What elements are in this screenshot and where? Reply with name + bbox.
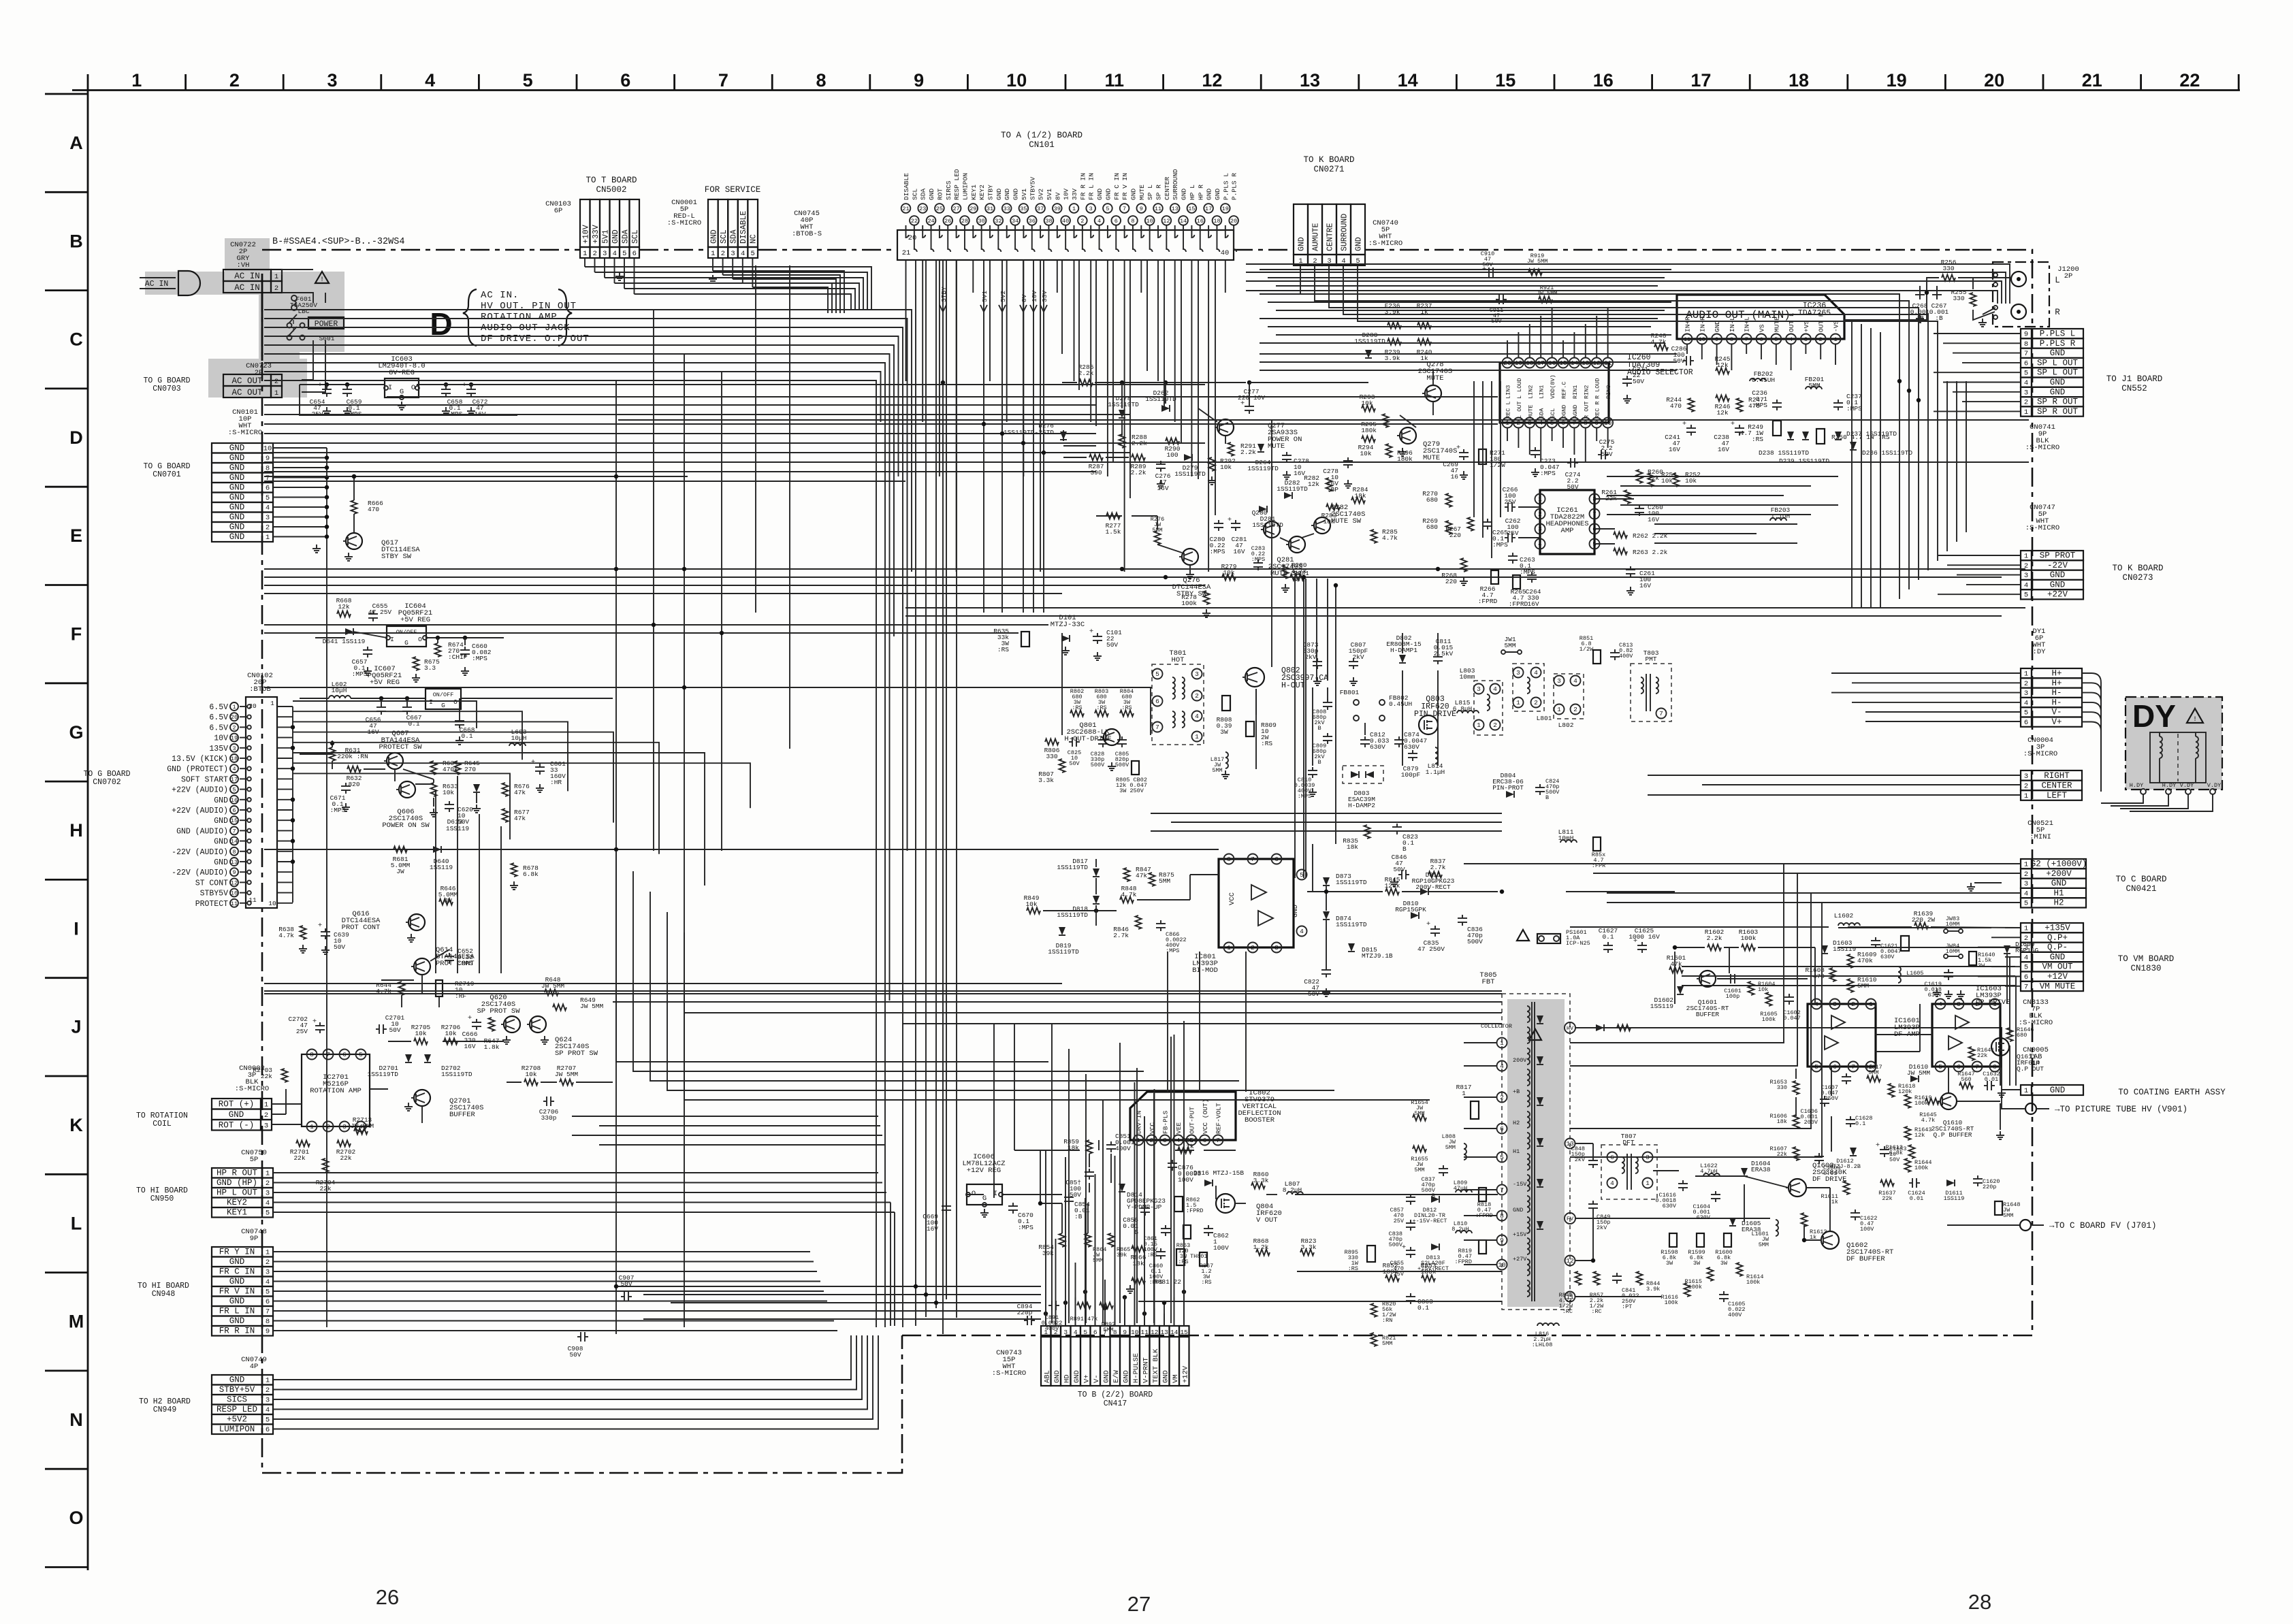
svg-text:20: 20 xyxy=(231,714,238,721)
diode D804 xyxy=(1506,791,1514,798)
wire xyxy=(1570,926,1829,928)
wire xyxy=(2005,927,2021,928)
resistor R1655 xyxy=(1413,1146,1426,1152)
svg-text:470k: 470k xyxy=(1857,957,1873,964)
resistor R244 xyxy=(1688,398,1695,412)
wire xyxy=(1805,344,1806,354)
capacitor C1628 xyxy=(1850,1116,1851,1120)
svg-text:50V: 50V xyxy=(1567,483,1578,491)
resistor R245 xyxy=(1716,368,1729,374)
svg-text:100k: 100k xyxy=(1914,1100,1928,1107)
resistor R1606 xyxy=(1793,1115,1799,1128)
wire xyxy=(1908,381,1910,589)
svg-text:SP L OUT: SP L OUT xyxy=(2037,358,2079,368)
transistor Q1603 DF DRIVE xyxy=(1789,1179,1806,1197)
svg-text:2: 2 xyxy=(326,1123,330,1131)
resistor R1603 xyxy=(1742,945,1755,951)
svg-text:CN0702: CN0702 xyxy=(93,778,121,787)
svg-text:11: 11 xyxy=(1105,70,1125,91)
wire xyxy=(1464,1264,1496,1265)
svg-text:37: 37 xyxy=(1037,206,1044,212)
svg-text:HP L: HP L xyxy=(1189,184,1196,200)
svg-text:12k: 12k xyxy=(1308,481,1319,488)
resistor R1605 xyxy=(1766,992,1772,1006)
resistor R2705 xyxy=(414,1039,428,1045)
resistor R845 xyxy=(1385,889,1399,895)
diode D873 xyxy=(1323,877,1330,886)
wire xyxy=(1570,864,2021,1043)
wire xyxy=(1876,1051,1920,1052)
wire xyxy=(1085,1074,1087,1323)
svg-text:10k: 10k xyxy=(445,1030,456,1037)
svg-text:6: 6 xyxy=(266,1426,270,1434)
svg-text:GND: GND xyxy=(229,444,245,453)
wire xyxy=(264,990,1502,992)
wire xyxy=(1138,1301,1502,1302)
resistor R250 xyxy=(1816,429,1825,444)
wire xyxy=(1305,579,1306,878)
wire CN0743 drops xyxy=(1045,1314,1046,1326)
svg-text:5P: 5P xyxy=(250,1156,259,1164)
diode D811 xyxy=(1420,888,1428,895)
svg-text:33V: 33V xyxy=(1041,291,1048,302)
capacitor C2701 xyxy=(376,1028,379,1030)
svg-text:2kV: 2kV xyxy=(1597,1224,1607,1231)
svg-text:GND: GND xyxy=(2050,570,2066,580)
wire xyxy=(1191,260,1192,476)
resistor R847 xyxy=(1124,868,1130,881)
svg-text:18k: 18k xyxy=(1777,1118,1787,1125)
svg-text:5V1: 5V1 xyxy=(1046,189,1053,200)
svg-text:5MM: 5MM xyxy=(1759,1241,1769,1248)
capacitor C807 xyxy=(1353,658,1354,662)
svg-text:500V: 500V xyxy=(1467,938,1483,945)
svg-text:10k: 10k xyxy=(1661,477,1673,485)
wire xyxy=(1804,1239,1822,1241)
svg-text:1SS119TD: 1SS119TD xyxy=(1336,921,1367,928)
wire xyxy=(1831,672,2021,674)
svg-text:CN0703: CN0703 xyxy=(153,385,181,393)
wire xyxy=(1402,670,1403,766)
svg-text:10: 10 xyxy=(1006,70,1027,91)
svg-text:CN0271: CN0271 xyxy=(1313,165,1344,174)
svg-text:FR C IN: FR C IN xyxy=(219,1267,255,1277)
svg-text:+: + xyxy=(462,381,466,389)
svg-text:1: 1 xyxy=(264,1101,268,1109)
svg-text:VCC (OUT): VCC (OUT) xyxy=(1202,1099,1209,1134)
svg-text:50V: 50V xyxy=(389,1026,400,1034)
wire xyxy=(1518,332,1519,357)
svg-text:3: 3 xyxy=(2024,389,2028,397)
svg-text:33: 33 xyxy=(1004,206,1010,212)
resistor R1619 xyxy=(1905,1094,1911,1108)
svg-text:28: 28 xyxy=(961,218,968,225)
wire xyxy=(1170,1037,1172,1323)
wire xyxy=(273,1172,878,1173)
wire xyxy=(1260,269,1671,270)
resistor R1639 xyxy=(1914,923,1928,929)
svg-text:ON/OFF: ON/OFF xyxy=(396,629,417,636)
resistor R1604 xyxy=(1748,981,1754,995)
wire vert-out nets xyxy=(1098,1140,1100,1150)
svg-text:4: 4 xyxy=(1300,928,1304,935)
svg-text:5MM: 5MM xyxy=(1159,877,1170,885)
svg-text:6: 6 xyxy=(1500,1125,1504,1133)
capacitor C237 xyxy=(1838,400,1839,403)
svg-text:4: 4 xyxy=(1534,669,1538,677)
wire xyxy=(1682,975,2015,977)
svg-text:6: 6 xyxy=(2024,973,2028,981)
svg-text:1SS119TD: 1SS119TD xyxy=(1354,338,1385,345)
capacitor C1622 xyxy=(1855,1209,1856,1213)
svg-text:K: K xyxy=(69,1115,83,1135)
svg-text:+5V2: +5V2 xyxy=(227,1415,247,1425)
svg-text:100: 100 xyxy=(1166,451,1178,459)
svg-text:CN1830: CN1830 xyxy=(2130,964,2161,973)
svg-text:12: 12 xyxy=(1592,359,1601,367)
svg-text:1SS119TD: 1SS119TD xyxy=(1277,485,1308,493)
wire xyxy=(1570,903,2021,1157)
wire xyxy=(1654,523,1797,525)
svg-text:29: 29 xyxy=(969,206,976,212)
wire xyxy=(1540,316,1541,357)
svg-text:ROT (+): ROT (+) xyxy=(219,1100,255,1109)
wire xyxy=(1844,278,1939,320)
resistor R1601 xyxy=(1669,967,1683,973)
wire xyxy=(1852,702,2021,703)
resistor R1648 xyxy=(1995,1201,2002,1215)
svg-text:+: + xyxy=(318,922,322,930)
svg-text:+12V: +12V xyxy=(1182,1365,1190,1383)
svg-text:8: 8 xyxy=(266,1318,270,1326)
svg-text:3: 3 xyxy=(1833,1001,1837,1008)
svg-text:H1: H1 xyxy=(2053,888,2064,898)
IC802 VERTICAL DEFLECTION BOOSTER xyxy=(1130,1092,1236,1140)
inductor L810 xyxy=(1456,1231,1472,1233)
svg-text:ROT: ROT xyxy=(936,189,944,200)
svg-text:AGND: AGND xyxy=(1572,405,1579,419)
wire xyxy=(273,1335,867,1410)
svg-text:5: 5 xyxy=(359,1051,363,1058)
resistor R1611 xyxy=(1844,1181,1850,1195)
capacitor C852 xyxy=(1089,1169,1090,1172)
svg-text:R LOUD: R LOUD xyxy=(1594,378,1601,399)
capacitor C277 xyxy=(1249,403,1250,406)
svg-text:5: 5 xyxy=(266,1416,270,1425)
resistor R293 xyxy=(1362,406,1375,412)
wire xyxy=(1150,687,1151,735)
svg-text:9: 9 xyxy=(1123,1329,1127,1336)
svg-text:1: 1 xyxy=(2024,925,2028,933)
wire xyxy=(1085,1198,1086,1326)
svg-text:-15V: -15V xyxy=(1513,1181,1527,1188)
resistor R843 xyxy=(1575,1271,1582,1285)
svg-text:4: 4 xyxy=(232,766,236,773)
svg-text:180k: 180k xyxy=(1361,427,1377,434)
svg-text:G: G xyxy=(404,639,408,647)
diode D280 xyxy=(1365,350,1372,358)
svg-text:TO C BOARD: TO C BOARD xyxy=(2115,875,2166,884)
svg-text:SDA: SDA xyxy=(621,229,630,244)
svg-text:7: 7 xyxy=(266,1308,270,1316)
capacitor C236 xyxy=(1776,400,1778,403)
capacitor C1627 xyxy=(1607,942,1609,945)
wire xyxy=(264,461,2029,463)
inductor L1622 xyxy=(1703,1173,1720,1176)
wire xyxy=(1674,952,1675,1004)
wire xyxy=(2006,954,2008,1004)
svg-text:2: 2 xyxy=(229,70,240,91)
wire xyxy=(1437,633,1439,653)
svg-text:1: 1 xyxy=(1477,721,1481,729)
svg-text:AUMUTE: AUMUTE xyxy=(1312,223,1321,251)
wire xyxy=(618,419,2029,421)
wire power-on-mute nets xyxy=(1062,382,1077,383)
svg-text:5: 5 xyxy=(2024,709,2028,717)
diode D101 xyxy=(1061,635,1070,642)
svg-text:VM MUTE: VM MUTE xyxy=(2040,981,2076,991)
svg-text:MTZJ-33C: MTZJ-33C xyxy=(1051,621,1085,629)
wire xyxy=(1343,265,1928,381)
svg-text:GND: GND xyxy=(2050,952,2066,962)
svg-text:GND: GND xyxy=(611,229,620,244)
resistor R286 xyxy=(1079,380,1093,386)
svg-text:7: 7 xyxy=(1500,1186,1504,1194)
IC2701 ROTATION AMP xyxy=(302,1054,370,1126)
svg-text:ROTATION AMP: ROTATION AMP xyxy=(481,312,558,323)
svg-text:2.2k: 2.2k xyxy=(1707,935,1722,942)
svg-text:5MM: 5MM xyxy=(1808,382,1820,389)
svg-text:1k: 1k xyxy=(1831,1199,1838,1205)
transistor Q278 xyxy=(1425,385,1441,402)
capacitor C808 xyxy=(1327,699,1328,702)
svg-text:H.DY: H.DY xyxy=(2130,782,2143,789)
svg-text:47 250V: 47 250V xyxy=(1417,945,1445,953)
wire xyxy=(999,305,1006,312)
resistor R284 xyxy=(1351,498,1365,504)
svg-text:R263 2.2k: R263 2.2k xyxy=(1633,549,1668,556)
svg-text:D641 1SS119: D641 1SS119 xyxy=(323,638,366,645)
resistor R1607 xyxy=(1793,1147,1799,1160)
svg-text:VM OUT: VM OUT xyxy=(2042,962,2073,972)
wire xyxy=(1033,260,1034,613)
svg-text:5: 5 xyxy=(2024,900,2028,908)
svg-text:+12V: +12V xyxy=(2047,972,2068,981)
capacitor C275 xyxy=(1598,454,1601,455)
svg-text:12k: 12k xyxy=(1914,1132,1925,1139)
svg-text:GND: GND xyxy=(1206,189,1213,200)
svg-text::RS: :RS xyxy=(1261,740,1272,747)
svg-text:H-DAMP1: H-DAMP1 xyxy=(1390,647,1417,654)
svg-text:1: 1 xyxy=(1516,699,1520,707)
svg-text:470: 470 xyxy=(1670,402,1682,410)
svg-text:18: 18 xyxy=(231,756,238,762)
svg-text:SCL: SCL xyxy=(720,229,728,244)
resistor R255 xyxy=(1970,293,1976,306)
svg-text:10k: 10k xyxy=(1223,569,1234,576)
capacitor C639 xyxy=(325,928,326,932)
svg-text:16V: 16V xyxy=(464,1043,475,1050)
wire xyxy=(1204,1150,1236,1151)
capacitor C837 xyxy=(1443,1165,1444,1169)
wire xyxy=(1934,333,2021,334)
transistor Q1610 xyxy=(1940,1093,1957,1109)
svg-text::RS: :RS xyxy=(1752,436,1763,443)
wire vert nets xyxy=(1307,891,1383,892)
wire xyxy=(752,287,828,313)
svg-text:TO B (2/2) BOARD: TO B (2/2) BOARD xyxy=(1078,1391,1153,1399)
svg-text:10: 10 xyxy=(231,890,238,897)
svg-text:G: G xyxy=(441,702,445,709)
svg-text:GND: GND xyxy=(1096,189,1104,200)
transistor Q614 xyxy=(414,958,430,975)
transistor Q801 xyxy=(1104,729,1120,745)
svg-text:10: 10 xyxy=(1699,336,1705,343)
wire xyxy=(1276,310,1665,311)
svg-text:4: 4 xyxy=(2024,699,2028,707)
svg-text:M: M xyxy=(69,1312,84,1332)
wire xyxy=(684,354,685,1327)
svg-text:B: B xyxy=(1402,845,1407,853)
svg-text:6.8μH: 6.8μH xyxy=(1453,705,1473,713)
svg-text:13: 13 xyxy=(231,859,238,866)
wire xyxy=(1943,342,2021,344)
svg-text:2kV: 2kV xyxy=(1304,653,1316,661)
svg-text:L801: L801 xyxy=(1537,715,1552,722)
wire xyxy=(1682,966,2015,967)
svg-text:MTZJ9.1B: MTZJ9.1B xyxy=(1362,952,1393,960)
svg-text:CENTER: CENTER xyxy=(2041,781,2072,790)
resistor R256 xyxy=(1942,275,1955,281)
svg-text:R891 47k: R891 47k xyxy=(1070,1316,1098,1322)
svg-text:7: 7 xyxy=(1251,856,1255,863)
capacitor C824 xyxy=(1539,784,1541,787)
wire xyxy=(264,632,1019,634)
wire xyxy=(264,442,1205,444)
resistor R866 xyxy=(1132,1246,1145,1252)
resistor R835 xyxy=(1364,825,1370,839)
wire xyxy=(1464,1156,1496,1158)
diode D1602 xyxy=(1677,986,1684,994)
svg-text:5V2: 5V2 xyxy=(999,291,1007,302)
wire Q606 nets3 xyxy=(332,761,333,769)
svg-text:1SS119TD: 1SS119TD xyxy=(1174,470,1206,478)
svg-text:GND: GND xyxy=(2050,348,2066,358)
svg-text:GND: GND xyxy=(229,503,245,513)
wire xyxy=(1776,344,1777,365)
wire xyxy=(1962,401,2021,402)
svg-text:GND: GND xyxy=(1513,1207,1523,1214)
svg-text:5: 5 xyxy=(1938,1063,1942,1071)
wire xyxy=(940,305,946,312)
wire xyxy=(1260,342,1665,344)
capacitor C1620 xyxy=(1977,1175,1978,1179)
svg-text::VH: :VH xyxy=(237,261,250,270)
svg-text:1: 1 xyxy=(2024,861,2028,869)
resistor R844 xyxy=(1637,1271,1643,1285)
wire xyxy=(1575,1143,1593,1144)
wire xyxy=(1956,381,1957,542)
svg-text:220: 220 xyxy=(1449,532,1461,539)
svg-text:4: 4 xyxy=(1610,1180,1614,1187)
svg-text::MPS: :MPS xyxy=(1251,556,1265,563)
wire xyxy=(264,345,894,636)
transistor Q1611 xyxy=(1991,1038,2009,1056)
svg-text:DF DRIVE. O.P OUT: DF DRIVE. O.P OUT xyxy=(481,334,590,344)
resistor R821 xyxy=(1371,1333,1377,1346)
wire xyxy=(989,260,991,381)
svg-text:+5V REG: +5V REG xyxy=(400,616,430,624)
resistor R1614 xyxy=(1737,1263,1743,1276)
diode D1605 xyxy=(1729,1218,1736,1226)
svg-text:2.7k: 2.7k xyxy=(1430,864,1446,871)
svg-text:21: 21 xyxy=(902,206,909,212)
svg-text:PROTECT: PROTECT xyxy=(195,900,228,909)
capacitor C1621 xyxy=(1875,937,1876,941)
svg-text:TO T BOARD: TO T BOARD xyxy=(586,176,637,185)
resistor R296 xyxy=(1386,444,1392,457)
svg-text:200V-RECT: 200V-RECT xyxy=(1415,883,1451,891)
svg-text:4: 4 xyxy=(2024,954,2028,962)
svg-text:47 25V: 47 25V xyxy=(368,608,392,616)
inductor FB802 xyxy=(1379,700,1385,705)
wire AC switch xyxy=(282,270,313,275)
capacitor C286 xyxy=(1683,360,1686,361)
svg-text:TH801: TH801 xyxy=(1190,1253,1208,1260)
svg-text:5: 5 xyxy=(1814,1063,1818,1071)
resistor R638 xyxy=(300,926,306,939)
resistor R2719 xyxy=(436,980,443,996)
wire xyxy=(1482,381,1484,538)
wire xyxy=(273,1182,882,1184)
svg-text:13: 13 xyxy=(1160,1329,1168,1336)
wire xyxy=(1102,1099,1104,1323)
svg-text:5: 5 xyxy=(1083,1329,1087,1336)
svg-text:CN101: CN101 xyxy=(1029,140,1055,150)
svg-text:2P: 2P xyxy=(2064,272,2073,280)
wire xyxy=(1570,873,2021,1066)
capacitor C264 xyxy=(1531,572,1533,575)
svg-text:SDA: SDA xyxy=(920,189,927,200)
resistor R1599 xyxy=(1697,1233,1704,1247)
resistor R252 xyxy=(1673,473,1680,487)
wire xyxy=(1112,260,1114,462)
svg-text:12: 12 xyxy=(1163,218,1170,225)
wire xyxy=(1303,577,1304,878)
diode D264 xyxy=(1257,444,1264,452)
svg-text:25V: 25V xyxy=(1504,498,1516,506)
wire xyxy=(1585,324,1586,357)
wire xyxy=(479,814,480,973)
resistor R647 xyxy=(489,1018,495,1031)
svg-text:560: 560 xyxy=(1961,1076,1971,1083)
svg-text:+-15V-RECT: +-15V-RECT xyxy=(1412,1218,1447,1224)
svg-text:100p: 100p xyxy=(1726,993,1739,1000)
resistor R292 xyxy=(1209,457,1215,471)
svg-text:3: 3 xyxy=(2024,773,2028,781)
wire xyxy=(1831,1067,1832,1096)
wire xyxy=(1934,372,2021,373)
wire xyxy=(2005,986,2021,987)
svg-text:220k :RN: 220k :RN xyxy=(337,753,368,760)
svg-text:GND: GND xyxy=(229,1297,245,1306)
capacitor C838 xyxy=(1410,1220,1411,1223)
wire xyxy=(1654,542,1797,544)
capacitor C1602 xyxy=(1789,994,1790,997)
switch S601 POWER xyxy=(308,317,344,329)
svg-text:10k: 10k xyxy=(443,789,454,796)
svg-text:H+: H+ xyxy=(2051,669,2062,679)
